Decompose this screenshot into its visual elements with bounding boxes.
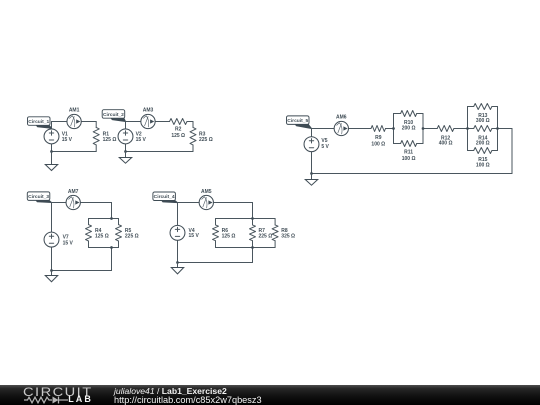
svg-text:Circuit_2: Circuit_2 <box>103 112 124 118</box>
resistor R3 <box>190 122 196 152</box>
wire block1 right vertical <box>422 114 424 144</box>
wire block2 right vertical <box>497 107 499 151</box>
svg-text:15 V: 15 V <box>62 137 73 143</box>
svg-text:100 Ω: 100 Ω <box>402 156 416 162</box>
wire C4 down from rail <box>252 248 254 263</box>
wire C3 bottom <box>52 270 112 272</box>
wire C1 top <box>52 121 97 123</box>
svg-text:400 Ω: 400 Ω <box>439 141 453 147</box>
wire C3 top rail <box>89 218 119 220</box>
junction block1 right <box>422 127 425 130</box>
wire block2 left vertical <box>467 107 469 151</box>
ammeter AM7 <box>66 195 80 209</box>
svg-text:15 V: 15 V <box>63 240 74 246</box>
svg-text:V5: V5 <box>321 138 327 144</box>
resistor R12 <box>437 126 454 132</box>
wire C5 source branch <box>311 129 313 174</box>
node flag Circuit_3 <box>27 192 51 203</box>
junction block2 right <box>496 127 499 130</box>
wire C2 bottom <box>126 151 194 153</box>
resistor R1 <box>93 122 99 152</box>
wire C1 bottom <box>52 151 97 153</box>
junction C5 ground <box>310 172 313 175</box>
svg-text:Circuit_5: Circuit_5 <box>287 118 308 124</box>
svg-text:AM6: AM6 <box>336 115 347 121</box>
svg-text:R11: R11 <box>404 150 413 156</box>
svg-text:R2: R2 <box>175 127 182 133</box>
wire C5 R9 to block1 <box>386 128 394 130</box>
wire C4 bottom <box>178 262 253 264</box>
resistor R5 <box>116 219 122 248</box>
wire C2 top <box>126 121 170 123</box>
svg-text:225 Ω: 225 Ω <box>199 137 213 143</box>
ammeter AM1 <box>67 114 81 128</box>
node flag Circuit_5 <box>287 116 312 129</box>
wire C3 top <box>52 202 112 204</box>
ammeter AM6 <box>334 121 348 135</box>
CircuitLab logo: CIRCUIT word <box>23 385 93 399</box>
ground (C2) <box>119 152 131 164</box>
ground (C4) <box>171 263 183 274</box>
CircuitLab logo: LAB word <box>68 396 93 403</box>
voltage source V5 <box>304 137 319 152</box>
svg-text:Circuit_3: Circuit_3 <box>28 194 49 200</box>
wire C2 R2-R3 <box>187 121 193 123</box>
voltage source V4 <box>170 225 185 240</box>
wire C5 top <box>312 128 372 130</box>
svg-text:225 Ω: 225 Ω <box>259 234 273 240</box>
ammeter AM3 <box>141 114 155 128</box>
footer text line 2 <box>114 395 262 405</box>
voltage source V1 <box>44 129 59 144</box>
wire C5 bottom return <box>312 173 513 175</box>
svg-text:200 Ω: 200 Ω <box>476 140 490 146</box>
svg-text:100 Ω: 100 Ω <box>476 162 490 168</box>
wire C3 down from rail <box>111 248 113 271</box>
junction C4 ground <box>176 261 179 264</box>
voltage source V7 <box>44 232 59 247</box>
svg-text:325 Ω: 325 Ω <box>281 234 295 240</box>
svg-text:R10: R10 <box>404 120 413 126</box>
junction block1 left <box>392 127 395 130</box>
resistor R14 <box>468 126 498 132</box>
svg-text:300 Ω: 300 Ω <box>476 118 490 124</box>
svg-text:125 Ω: 125 Ω <box>95 234 109 240</box>
wire C3 feed down <box>111 203 113 219</box>
footer bar <box>0 385 540 405</box>
wire block1 left vertical <box>393 114 395 144</box>
svg-text:15 V: 15 V <box>136 137 147 143</box>
node flag Circuit_2 <box>102 110 125 122</box>
svg-text:V7: V7 <box>63 235 69 241</box>
wire C4 top <box>178 202 253 204</box>
svg-text:225 Ω: 225 Ω <box>125 234 139 240</box>
svg-text:Circuit_4: Circuit_4 <box>154 194 175 200</box>
svg-text:AM3: AM3 <box>143 108 154 114</box>
wire C1 source branch <box>51 122 53 152</box>
wire block1 to R12 <box>423 128 437 130</box>
wire C3 bottom rail <box>89 247 119 249</box>
svg-text:5 V: 5 V <box>321 144 329 150</box>
wire C4 top rail <box>216 218 276 220</box>
svg-text:AM5: AM5 <box>201 189 212 195</box>
ammeter AM5 <box>199 195 213 209</box>
svg-text:200 Ω: 200 Ω <box>402 126 416 132</box>
junction C3 ground <box>50 269 53 272</box>
svg-text:15 V: 15 V <box>189 233 200 239</box>
svg-text:100 Ω: 100 Ω <box>371 141 385 147</box>
ground (C3) <box>45 271 57 282</box>
wire C4 bottom rail <box>216 247 276 249</box>
svg-text:V2: V2 <box>136 131 142 137</box>
resistor R13 <box>468 104 498 110</box>
ground (C1) <box>45 152 57 171</box>
wire C4 source branch <box>177 203 179 263</box>
junction C1 <box>50 150 53 153</box>
junction C3 bottom rail <box>110 246 113 249</box>
node flag Circuit_1 <box>28 117 52 129</box>
junction C3 top rail <box>110 217 113 220</box>
CircuitLab logo: resistor zigzag + diode glyph <box>23 395 68 405</box>
resistor R15 <box>468 148 498 154</box>
ground (C5) <box>305 174 317 186</box>
svg-text:125 Ω: 125 Ω <box>103 137 117 143</box>
resistor R2 <box>170 119 188 125</box>
wire C4 feed down <box>252 203 254 219</box>
wire C5 right vertical <box>511 129 513 174</box>
resistor R6 <box>213 219 219 248</box>
resistor R7 <box>250 219 256 248</box>
footer text line 1 <box>114 386 227 396</box>
junction block2 left <box>466 127 469 130</box>
wire R12 to block2 <box>454 128 468 130</box>
svg-text:AM7: AM7 <box>68 189 79 195</box>
resistor R10 <box>394 111 424 117</box>
voltage source V2 <box>118 129 133 144</box>
resistor R4 <box>86 219 92 248</box>
resistor R9 <box>371 126 386 132</box>
svg-text:Circuit_1: Circuit_1 <box>28 119 49 125</box>
wire block2 to right edge <box>498 128 513 130</box>
junction C2 <box>124 150 127 153</box>
wire C3 source branch <box>51 203 53 271</box>
junction C4 top rail <box>251 217 254 220</box>
junction C4 bottom rail <box>251 246 254 249</box>
resistor R11 <box>394 141 424 147</box>
svg-text:AM1: AM1 <box>69 107 80 113</box>
svg-text:R9: R9 <box>375 135 382 141</box>
node flag Circuit_4 <box>153 192 178 203</box>
svg-text:V1: V1 <box>62 131 68 137</box>
svg-text:125 Ω: 125 Ω <box>171 133 185 139</box>
svg-text:125 Ω: 125 Ω <box>222 234 236 240</box>
resistor R8 <box>272 219 278 248</box>
wire C2 source branch <box>125 122 127 152</box>
